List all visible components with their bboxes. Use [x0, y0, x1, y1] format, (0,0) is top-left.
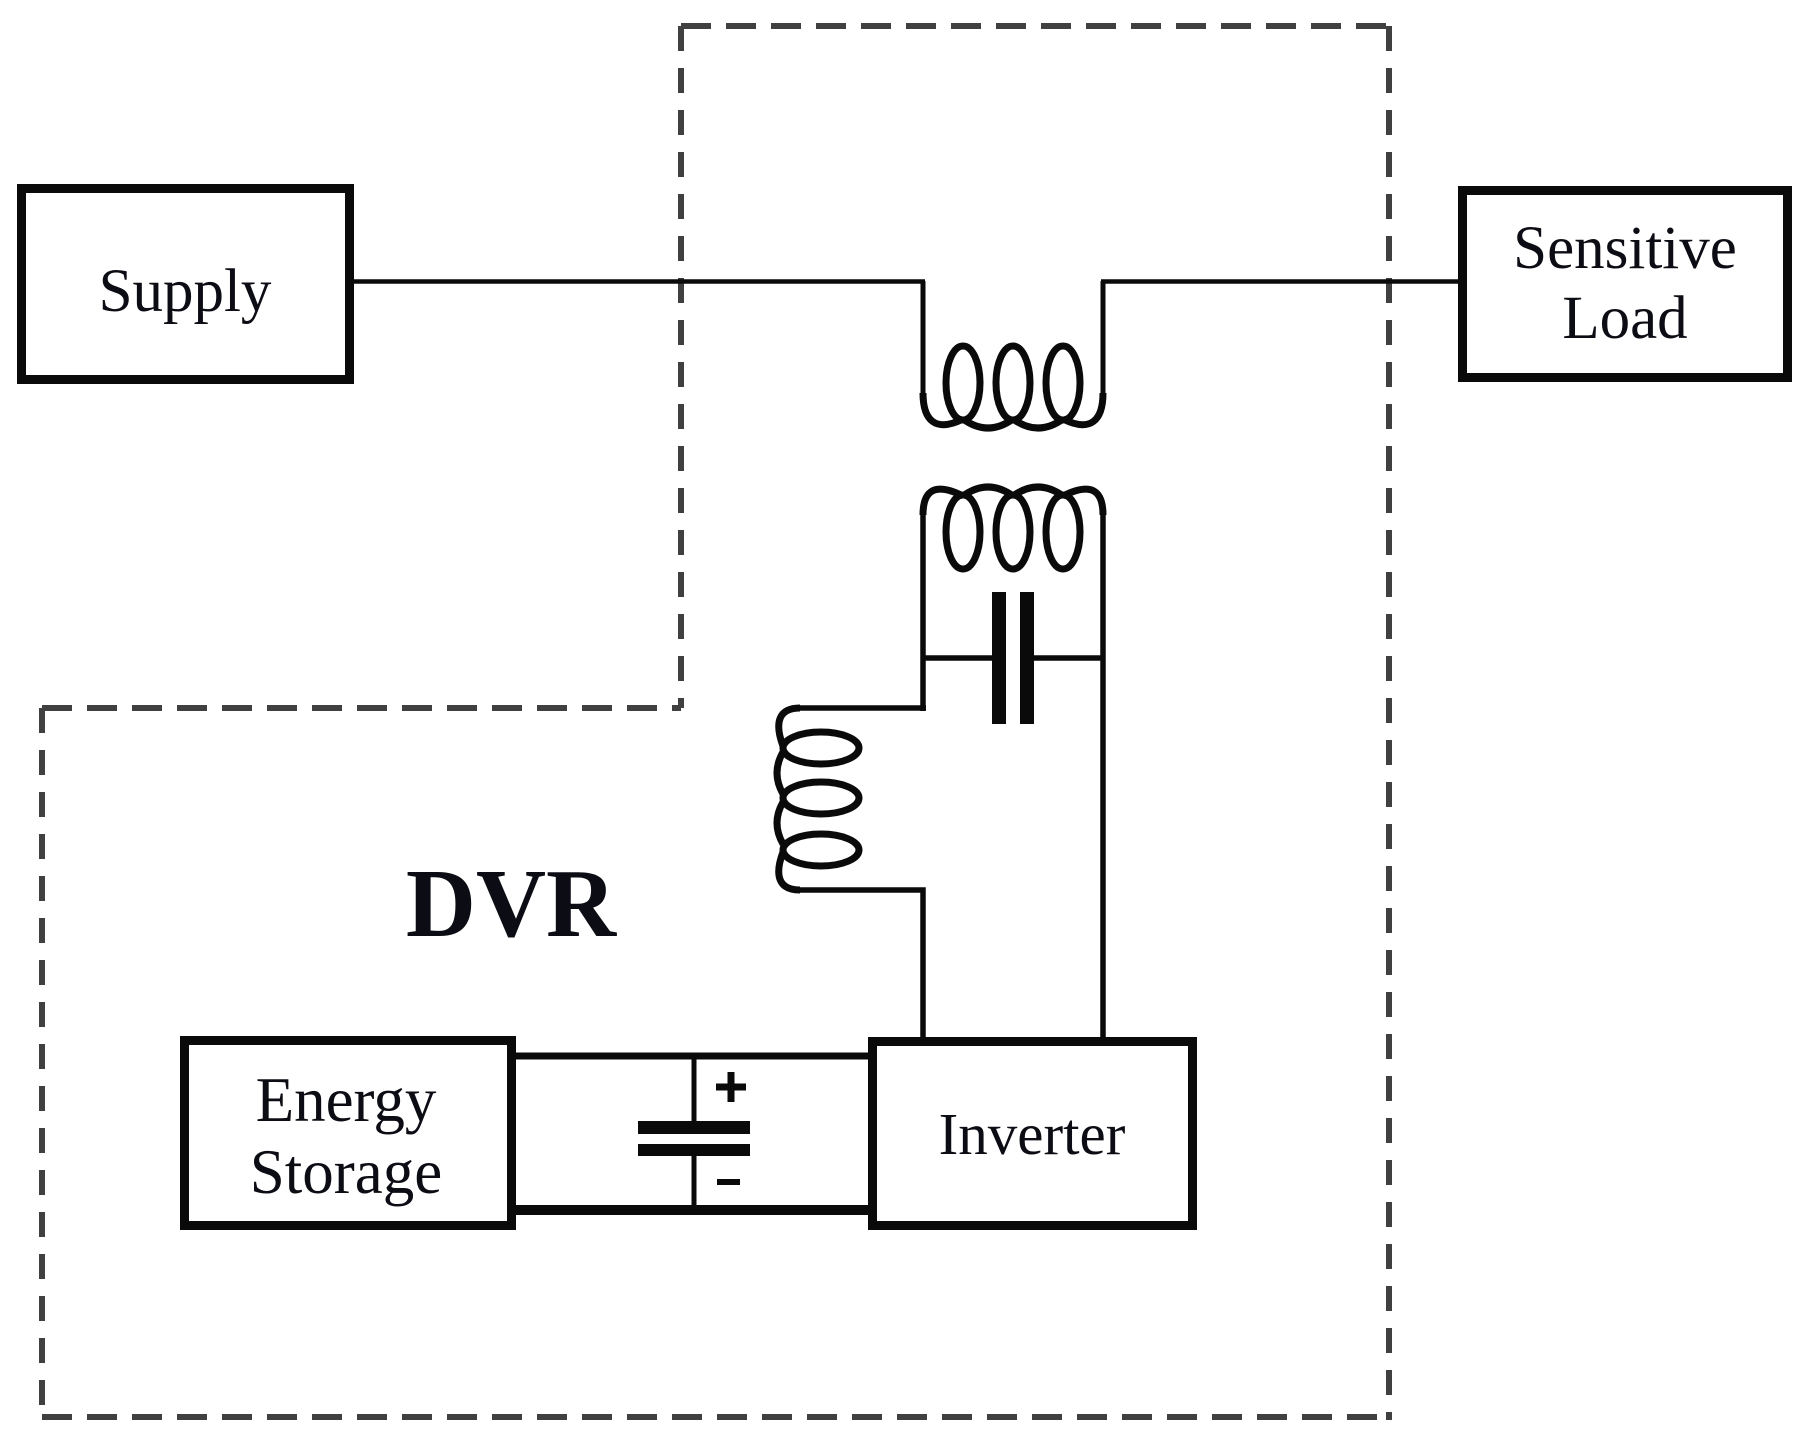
- dashed DVR boundary: middle horizontal segment: [42, 705, 681, 711]
- polarity plus sign: [716, 1072, 746, 1102]
- wire: secondary left terminal down to filter junction: [920, 512, 926, 711]
- block Supply: [22, 189, 350, 380]
- dashed DVR boundary: left vertical segment: [39, 708, 45, 1420]
- inductor L3 filter inductor loops: [783, 732, 859, 764]
- block Inverter: [873, 1042, 1193, 1226]
- wire: DC link capacitor top lead: [692, 1056, 697, 1121]
- svg-text:Load: Load: [1562, 285, 1687, 352]
- inductor L1 primary winding of injection transformer (scallop path): [923, 393, 1103, 428]
- wire: primary right stub down from load line: [1101, 281, 1106, 397]
- wire: DC bus bottom line: [516, 1205, 868, 1215]
- dashed DVR boundary: top horizontal segment: [681, 23, 1392, 29]
- svg-text:DVR: DVR: [406, 850, 617, 957]
- wire: secondary right terminal down to inverter: [1100, 512, 1106, 1041]
- dashed DVR boundary: right vertical segment: [1386, 26, 1392, 1420]
- polarity minus sign: [717, 1179, 740, 1185]
- svg-text:Inverter: Inverter: [939, 1101, 1126, 1167]
- inductor L2 secondary winding loops: [946, 495, 980, 569]
- svg-text:Supply: Supply: [99, 258, 272, 325]
- inductor L2 secondary winding of injection transformer (over-arc path): [923, 487, 1103, 515]
- wire: filter capacitor right plate to right branch: [1034, 655, 1103, 661]
- block Sensitive Load: [1463, 191, 1788, 378]
- block Energy Storage: [185, 1041, 512, 1226]
- wire: junction to filter capacitor left plate: [923, 655, 992, 661]
- wire: DC bus top line: [516, 1053, 868, 1060]
- wire: injection transformer right stub to Sensitive Load: [1101, 279, 1458, 284]
- capacitor C1 filter capacitor right plate: [1020, 592, 1034, 724]
- capacitor C1 filter capacitor left plate: [992, 592, 1006, 724]
- dashed DVR boundary: middle vertical segment: [678, 26, 684, 708]
- wire: DC link capacitor bottom lead: [692, 1156, 697, 1210]
- inductor L3 filter inductor (vertical, arcs on left): [777, 708, 800, 890]
- capacitor C2 DC link capacitor top plate: [638, 1121, 750, 1134]
- wire: Supply to injection transformer left stub: [354, 279, 925, 284]
- dashed DVR boundary: bottom horizontal segment: [42, 1414, 1389, 1420]
- wire: filter inductor bottom to inverter: [800, 890, 923, 1041]
- capacitor C2 DC link capacitor bottom plate: [638, 1144, 750, 1156]
- svg-text:Energy: Energy: [256, 1065, 437, 1135]
- wire: junction left to filter inductor top: [800, 705, 926, 711]
- svg-text:Sensitive: Sensitive: [1513, 215, 1737, 282]
- inductor L1 primary winding loops: [946, 346, 980, 420]
- wire: primary left stub down from supply line: [921, 281, 926, 397]
- svg-text:Storage: Storage: [250, 1137, 442, 1207]
